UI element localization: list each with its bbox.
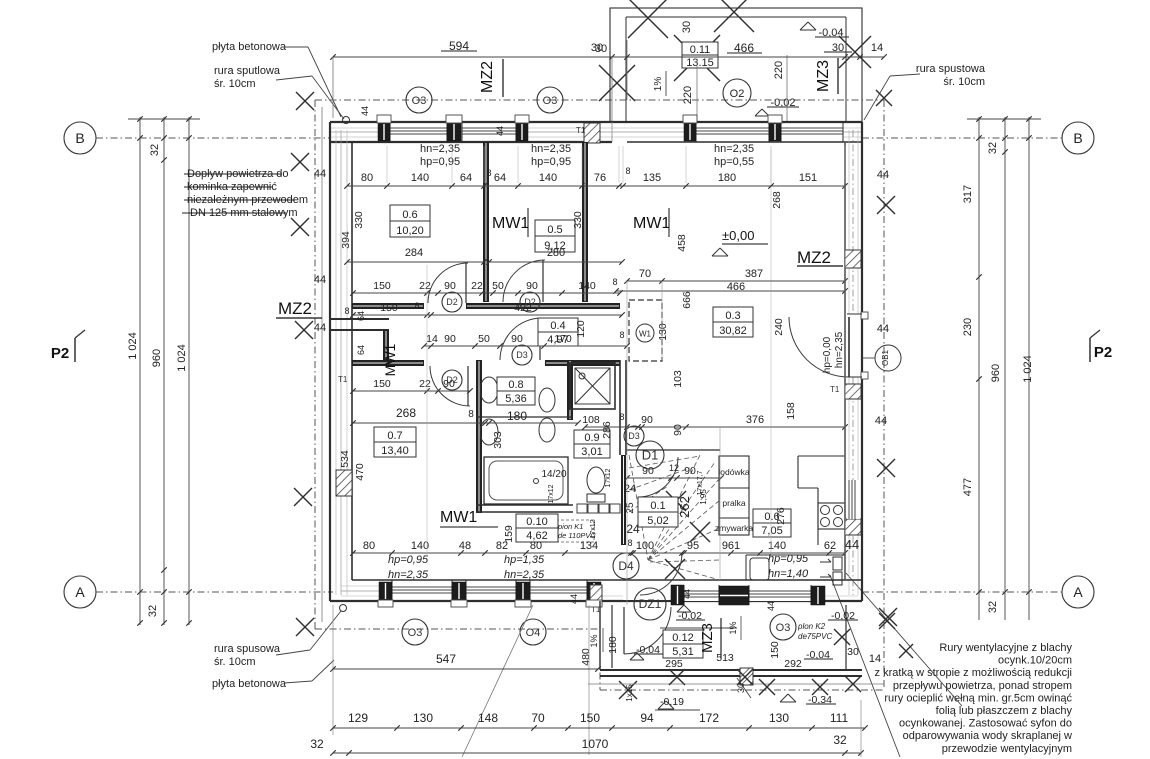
- svg-text:268: 268: [396, 406, 416, 420]
- svg-text:MZ2: MZ2: [479, 61, 496, 93]
- svg-text:32: 32: [149, 144, 161, 156]
- svg-text:44: 44: [314, 274, 326, 286]
- svg-text:OB1: OB1: [881, 349, 890, 366]
- svg-text:44: 44: [314, 322, 326, 334]
- svg-text:50: 50: [478, 333, 490, 345]
- svg-text:140: 140: [411, 172, 429, 184]
- svg-text:376: 376: [746, 414, 764, 426]
- svg-text:150: 150: [380, 302, 398, 314]
- svg-text:387: 387: [745, 268, 763, 280]
- svg-text:80: 80: [363, 540, 375, 552]
- svg-text:30: 30: [591, 42, 603, 54]
- svg-text:hp=1,35: hp=1,35: [504, 554, 545, 566]
- svg-text:0.11: 0.11: [690, 44, 711, 56]
- svg-text:5,36: 5,36: [505, 393, 526, 405]
- svg-text:170: 170: [554, 333, 572, 345]
- svg-text:30,82: 30,82: [719, 325, 747, 337]
- svg-text:hp=0,55: hp=0,55: [714, 156, 754, 168]
- svg-text:rura sputlowa: rura sputlowa: [214, 65, 281, 77]
- svg-text:17x12: 17x12: [548, 484, 555, 503]
- svg-text:hn=1,40: hn=1,40: [768, 568, 809, 580]
- svg-text:hn=2,35: hn=2,35: [504, 569, 545, 581]
- svg-text:przepływu powietrza, ponad str: przepływu powietrza, ponad stropem: [893, 680, 1072, 692]
- svg-text:rura spusowa: rura spusowa: [214, 643, 281, 655]
- svg-text:24: 24: [626, 522, 640, 536]
- svg-text:0.12: 0.12: [672, 632, 693, 644]
- svg-text:513: 513: [716, 652, 734, 664]
- svg-text:de75PVC: de75PVC: [798, 632, 832, 641]
- svg-text:hp=0,95: hp=0,95: [531, 156, 571, 168]
- svg-text:rura spustowa: rura spustowa: [916, 63, 986, 75]
- svg-text:220: 220: [773, 61, 785, 79]
- svg-text:90: 90: [672, 424, 684, 436]
- svg-text:44: 44: [495, 126, 505, 136]
- svg-text:zmywarka: zmywarka: [715, 523, 754, 533]
- svg-text:30: 30: [681, 21, 693, 33]
- svg-text:80: 80: [530, 540, 542, 552]
- svg-text:T1: T1: [576, 126, 586, 135]
- svg-text:plon K2: plon K2: [797, 622, 826, 631]
- svg-text:0.10: 0.10: [526, 516, 547, 528]
- svg-text:14: 14: [426, 333, 438, 345]
- svg-text:ocynk.10/20cm: ocynk.10/20cm: [998, 655, 1072, 667]
- svg-text:1x15: 1x15: [625, 684, 634, 702]
- svg-text:44: 44: [314, 168, 326, 180]
- svg-text:477: 477: [962, 478, 974, 496]
- svg-text:470: 470: [354, 463, 366, 481]
- svg-text:B: B: [75, 130, 84, 146]
- svg-text:95: 95: [687, 540, 699, 552]
- svg-text:103: 103: [672, 370, 684, 388]
- svg-text:MW1: MW1: [382, 343, 398, 376]
- svg-text:1%: 1%: [728, 621, 738, 634]
- svg-text:90: 90: [641, 414, 653, 426]
- svg-text:śr. 10cm: śr. 10cm: [943, 76, 985, 88]
- svg-text:T1: T1: [338, 375, 348, 384]
- svg-text:0.9: 0.9: [584, 432, 599, 444]
- svg-text:22: 22: [419, 378, 431, 390]
- svg-text:130: 130: [769, 711, 789, 725]
- svg-text:961: 961: [722, 540, 740, 552]
- svg-text:O3: O3: [776, 622, 791, 634]
- svg-text:Rury wentylacyjne z blachy: Rury wentylacyjne z blachy: [939, 642, 1072, 654]
- svg-text:0.4: 0.4: [550, 320, 565, 332]
- svg-text:422: 422: [514, 302, 532, 314]
- svg-text:0.5: 0.5: [547, 224, 562, 236]
- svg-text:P2: P2: [51, 345, 69, 362]
- svg-text:O3: O3: [408, 627, 423, 639]
- svg-text:7,05: 7,05: [761, 525, 782, 537]
- svg-text:hn=2,35: hn=2,35: [388, 569, 429, 581]
- svg-text:D1: D1: [642, 448, 659, 463]
- svg-text:folią lub płaszczem z blachy: folią lub płaszczem z blachy: [936, 705, 1073, 717]
- svg-text:8: 8: [625, 166, 630, 176]
- svg-text:140: 140: [539, 172, 557, 184]
- svg-text:8: 8: [627, 538, 632, 548]
- svg-text:64: 64: [356, 311, 366, 321]
- svg-text:120: 120: [575, 320, 587, 338]
- svg-text:150: 150: [580, 711, 600, 725]
- svg-text:130: 130: [413, 711, 433, 725]
- svg-text:rury ocieplić wełną min. gr.5c: rury ocieplić wełną min. gr.5cm owinąć: [884, 692, 1072, 704]
- svg-text:3,01: 3,01: [581, 446, 602, 458]
- svg-text:466: 466: [727, 281, 745, 293]
- svg-text:64: 64: [356, 345, 366, 355]
- svg-text:5,02: 5,02: [647, 515, 668, 527]
- svg-text:295: 295: [665, 658, 683, 670]
- svg-text:ocynkowanej. Zastosować syfon: ocynkowanej. Zastosować syfon do: [899, 718, 1072, 730]
- svg-text:DZ1: DZ1: [639, 597, 662, 611]
- svg-text:1070: 1070: [582, 737, 609, 751]
- svg-text:0.3: 0.3: [725, 310, 740, 322]
- svg-text:140: 140: [768, 540, 786, 552]
- svg-text:śr. 10cm: śr. 10cm: [214, 78, 256, 90]
- svg-text:14/20: 14/20: [541, 469, 566, 480]
- svg-text:-0,19: -0,19: [660, 696, 684, 708]
- svg-text:odparowywania wody skraplanej: odparowywania wody skraplanej w: [903, 730, 1072, 742]
- svg-text:17x17,7: 17x17,7: [697, 470, 704, 495]
- svg-text:32: 32: [987, 142, 999, 154]
- svg-text:240: 240: [773, 318, 785, 336]
- svg-text:262: 262: [677, 496, 692, 518]
- svg-text:1%: 1%: [653, 77, 664, 92]
- svg-text:0.1: 0.1: [650, 500, 665, 512]
- svg-text:140: 140: [411, 540, 429, 552]
- svg-text:32: 32: [147, 605, 159, 617]
- svg-text:90: 90: [642, 465, 654, 477]
- svg-text:150: 150: [373, 280, 391, 292]
- svg-text:317: 317: [962, 185, 974, 203]
- svg-text:180: 180: [607, 636, 619, 654]
- svg-text:D3: D3: [628, 431, 640, 441]
- svg-text:150: 150: [373, 378, 391, 390]
- svg-text:O3: O3: [543, 95, 558, 107]
- svg-text:13,40: 13,40: [381, 445, 409, 457]
- svg-text:12: 12: [669, 463, 679, 473]
- svg-text:100: 100: [636, 540, 654, 552]
- svg-text:90: 90: [511, 333, 523, 345]
- svg-text:14: 14: [869, 653, 881, 665]
- svg-text:960: 960: [990, 364, 1002, 382]
- svg-text:32: 32: [833, 733, 847, 747]
- svg-text:458: 458: [676, 234, 688, 252]
- svg-text:140: 140: [578, 280, 596, 292]
- svg-text:MW1: MW1: [633, 215, 670, 232]
- svg-text:A: A: [75, 584, 85, 600]
- svg-text:90: 90: [684, 465, 696, 477]
- svg-text:48: 48: [459, 540, 471, 552]
- svg-text:14: 14: [871, 42, 883, 54]
- svg-text:0.7: 0.7: [387, 430, 402, 442]
- svg-text:W1: W1: [639, 330, 652, 339]
- svg-text:129: 129: [348, 711, 368, 725]
- svg-text:76: 76: [594, 172, 606, 184]
- svg-text:hp=0,00: hp=0,00: [822, 336, 833, 373]
- svg-text:62: 62: [824, 540, 836, 552]
- svg-text:32: 32: [310, 737, 324, 751]
- svg-text:0.8: 0.8: [508, 379, 523, 391]
- svg-text:960: 960: [151, 349, 163, 367]
- svg-text:10,20: 10,20: [396, 225, 424, 237]
- svg-text:z kratką w stropie z możliwośc: z kratką w stropie z możliwością redukcj…: [875, 667, 1072, 679]
- svg-text:534: 534: [339, 450, 351, 468]
- svg-text:O3: O3: [412, 95, 427, 107]
- svg-text:44: 44: [875, 415, 887, 427]
- svg-text:280: 280: [547, 247, 565, 259]
- svg-text:220: 220: [682, 86, 694, 104]
- svg-text:8: 8: [486, 168, 491, 178]
- svg-text:90: 90: [526, 280, 538, 292]
- svg-text:135: 135: [643, 172, 661, 184]
- svg-text:hn=2,35: hn=2,35: [834, 331, 845, 368]
- svg-text:MW1: MW1: [440, 509, 477, 526]
- svg-text:230: 230: [962, 318, 974, 336]
- svg-text:180: 180: [507, 409, 527, 423]
- svg-text:90: 90: [443, 378, 455, 390]
- svg-text:hp=0,95: hp=0,95: [768, 553, 809, 565]
- svg-text:pion K1: pion K1: [557, 522, 583, 531]
- svg-text:płyta betonowa: płyta betonowa: [212, 678, 287, 690]
- svg-text:130: 130: [657, 323, 669, 341]
- svg-text:MZ3: MZ3: [815, 60, 832, 92]
- svg-text:1 024: 1 024: [127, 332, 139, 360]
- svg-text:284: 284: [405, 247, 423, 259]
- svg-text:5,31: 5,31: [672, 646, 693, 658]
- svg-text:159: 159: [503, 525, 515, 543]
- svg-text:292: 292: [784, 658, 802, 670]
- svg-text:8: 8: [344, 306, 349, 316]
- svg-text:P2: P2: [1094, 344, 1112, 361]
- svg-text:płyta betonowa: płyta betonowa: [212, 41, 287, 53]
- svg-text:17x12: 17x12: [590, 519, 597, 538]
- svg-text:150: 150: [769, 641, 781, 659]
- svg-text:hn=2,35: hn=2,35: [420, 143, 460, 155]
- svg-text:22: 22: [419, 280, 431, 292]
- svg-text:44: 44: [766, 601, 776, 611]
- svg-text:13.15: 13.15: [686, 57, 714, 69]
- svg-text:8: 8: [414, 301, 419, 311]
- svg-text:1%: 1%: [589, 634, 599, 647]
- svg-text:44: 44: [877, 323, 889, 335]
- svg-text:90: 90: [444, 333, 456, 345]
- svg-text:śr. 10cm: śr. 10cm: [214, 656, 256, 668]
- svg-text:8: 8: [612, 277, 617, 287]
- svg-text:547: 547: [436, 652, 456, 666]
- svg-text:MZ3: MZ3: [699, 623, 716, 653]
- svg-text:0.6: 0.6: [402, 209, 417, 221]
- svg-text:hp=0,95: hp=0,95: [420, 156, 460, 168]
- svg-text:330: 330: [353, 211, 365, 229]
- svg-text:80: 80: [361, 172, 373, 184]
- svg-text:O4: O4: [526, 627, 541, 639]
- svg-text:330: 330: [572, 211, 584, 229]
- svg-text:64: 64: [460, 172, 472, 184]
- svg-text:44: 44: [360, 106, 370, 116]
- svg-text:108: 108: [582, 414, 600, 426]
- svg-text:25: 25: [625, 502, 636, 514]
- svg-text:480: 480: [580, 648, 592, 666]
- svg-text:8: 8: [619, 412, 624, 422]
- svg-text:hp=0,95: hp=0,95: [388, 554, 429, 566]
- svg-text:94: 94: [640, 711, 654, 725]
- svg-text:D4: D4: [618, 559, 634, 573]
- svg-text:148: 148: [478, 711, 498, 725]
- svg-text:172: 172: [699, 711, 719, 725]
- svg-text:50: 50: [492, 280, 504, 292]
- svg-text:151: 151: [799, 172, 817, 184]
- svg-text:8: 8: [468, 409, 474, 420]
- svg-text:276: 276: [775, 507, 787, 525]
- svg-text:70: 70: [639, 268, 651, 280]
- svg-text:MZ2: MZ2: [797, 248, 831, 267]
- svg-text:pralka: pralka: [722, 498, 745, 508]
- svg-text:134: 134: [580, 540, 598, 552]
- svg-text:268: 268: [771, 191, 783, 209]
- svg-text:394: 394: [340, 231, 352, 249]
- svg-text:44: 44: [569, 594, 579, 604]
- svg-text:44: 44: [682, 589, 692, 599]
- svg-text:17x12: 17x12: [605, 468, 612, 487]
- svg-text:90: 90: [444, 280, 456, 292]
- svg-text:1 024: 1 024: [1022, 355, 1034, 383]
- svg-text:B: B: [1073, 130, 1082, 146]
- svg-text:22: 22: [471, 280, 483, 292]
- svg-text:70: 70: [531, 711, 545, 725]
- svg-text:przewodzie wentylacyjnym: przewodzie wentylacyjnym: [942, 743, 1072, 755]
- svg-text:44: 44: [877, 169, 889, 181]
- svg-text:1 024: 1 024: [176, 344, 188, 372]
- svg-text:30: 30: [847, 646, 859, 658]
- svg-text:24: 24: [624, 483, 636, 495]
- svg-text:44: 44: [845, 537, 859, 552]
- svg-text:A: A: [1073, 584, 1083, 600]
- svg-text:O2: O2: [730, 88, 745, 100]
- svg-text:MW1: MW1: [492, 215, 529, 232]
- svg-text:hn=2,35: hn=2,35: [531, 143, 571, 155]
- svg-text:D2: D2: [446, 297, 458, 307]
- svg-text:158: 158: [785, 402, 797, 420]
- svg-text:32: 32: [987, 601, 999, 613]
- svg-text:180: 180: [718, 172, 736, 184]
- svg-text:T1: T1: [830, 385, 840, 394]
- svg-text:hn=2,35: hn=2,35: [714, 143, 754, 155]
- svg-text:MZ2: MZ2: [278, 299, 312, 318]
- svg-text:303: 303: [492, 431, 504, 449]
- svg-text:111: 111: [830, 711, 849, 725]
- svg-text:±0,00: ±0,00: [722, 228, 754, 243]
- svg-text:286: 286: [601, 421, 613, 439]
- svg-text:8: 8: [619, 330, 624, 340]
- svg-text:D3: D3: [516, 350, 528, 360]
- svg-text:64: 64: [494, 172, 506, 184]
- svg-text:666: 666: [681, 291, 693, 309]
